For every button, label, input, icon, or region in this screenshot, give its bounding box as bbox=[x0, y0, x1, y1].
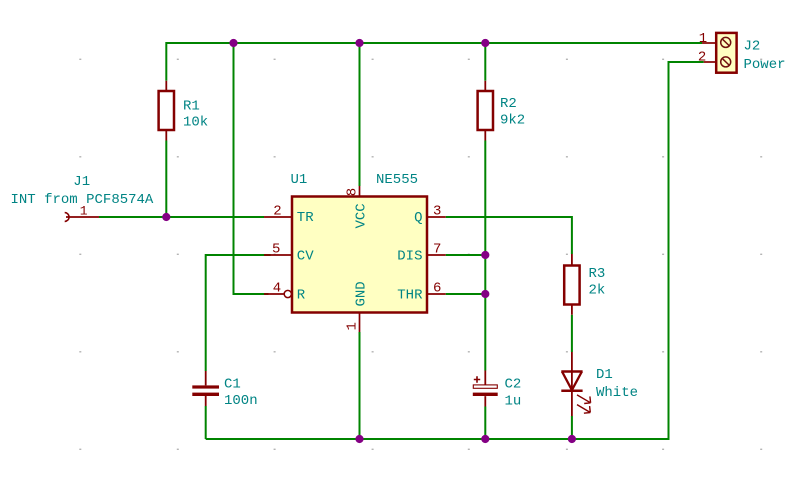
screw terminal 1 bbox=[721, 37, 731, 47]
svg-text:C2: C2 bbox=[505, 377, 522, 393]
pin 2 of J2 bbox=[704, 61, 717, 63]
resistor R2 bbox=[478, 81, 526, 141]
svg-text:White: White bbox=[596, 385, 638, 401]
svg-text:R1: R1 bbox=[183, 99, 200, 115]
junction TR node bbox=[162, 213, 170, 221]
pin 5 CV bbox=[264, 242, 314, 265]
wire J1 to TR bbox=[99, 216, 264, 218]
pin 1 GND bbox=[345, 281, 370, 332]
wire THR stub bbox=[446, 293, 486, 295]
pin 4 R (inverted) bbox=[264, 281, 306, 304]
LED D1 bbox=[561, 352, 590, 416]
svg-text:8: 8 bbox=[345, 188, 361, 196]
wire right return to J2 pin2 bbox=[669, 62, 704, 440]
wire top power rail bbox=[99, 42, 704, 440]
svg-text:INT from PCF8574A: INT from PCF8574A bbox=[11, 192, 154, 208]
connector J1 bbox=[11, 174, 154, 221]
svg-text:4: 4 bbox=[273, 281, 281, 297]
junction THR node bbox=[481, 290, 489, 298]
wire C1 bottom bbox=[205, 406, 207, 439]
junction D1 bottom bbox=[568, 435, 576, 443]
junction top rail / R2 bbox=[481, 39, 489, 47]
wire R1 bottom to TR node bbox=[165, 141, 167, 218]
wire R2 bottom through DIS THR to C2 bbox=[484, 141, 486, 371]
svg-text:R: R bbox=[297, 288, 306, 304]
svg-text:10k: 10k bbox=[183, 115, 208, 131]
svg-text:9k2: 9k2 bbox=[500, 113, 525, 129]
svg-text:R3: R3 bbox=[589, 266, 606, 282]
svg-text:6: 6 bbox=[433, 281, 441, 297]
pin 8 VCC bbox=[345, 186, 370, 229]
op-amp / timer U1 NE555 bbox=[291, 172, 428, 313]
svg-text:CV: CV bbox=[297, 249, 314, 265]
screw terminal 2 bbox=[721, 57, 731, 67]
svg-text:Power: Power bbox=[744, 57, 786, 73]
junction C2 bottom bbox=[481, 435, 489, 443]
svg-text:2k: 2k bbox=[589, 283, 606, 299]
grid dots bbox=[79, 59, 762, 450]
svg-text:VCC: VCC bbox=[354, 203, 370, 228]
svg-text:1: 1 bbox=[345, 322, 361, 330]
wire GND vertical bbox=[359, 332, 361, 439]
svg-text:2: 2 bbox=[273, 204, 281, 220]
wire DIS stub bbox=[446, 254, 486, 256]
wire Q to R3 bbox=[446, 217, 572, 254]
wire CV to C1 bbox=[206, 255, 271, 371]
resistor R3 bbox=[564, 254, 605, 315]
svg-text:U1: U1 bbox=[291, 172, 308, 188]
svg-text:7: 7 bbox=[433, 242, 441, 258]
svg-text:2: 2 bbox=[698, 50, 706, 66]
svg-text:1u: 1u bbox=[505, 394, 522, 410]
svg-text:GND: GND bbox=[354, 281, 370, 306]
wire VCC vertical bbox=[359, 43, 361, 186]
svg-text:DIS: DIS bbox=[397, 249, 422, 265]
junction top rail / reset riser bbox=[229, 39, 237, 47]
pin 2 TR bbox=[264, 204, 314, 227]
wire C2 bottom bbox=[484, 407, 486, 440]
pin 6 THR bbox=[397, 281, 445, 304]
svg-text:J1: J1 bbox=[73, 174, 90, 190]
svg-text:TR: TR bbox=[297, 210, 314, 226]
svg-text:3: 3 bbox=[433, 204, 441, 220]
svg-text:J2: J2 bbox=[744, 39, 761, 55]
junction GND bottom bbox=[355, 435, 363, 443]
svg-text:C1: C1 bbox=[224, 377, 241, 393]
junction top rail / VCC bbox=[355, 39, 363, 47]
pin 7 DIS bbox=[397, 242, 445, 265]
svg-text:NE555: NE555 bbox=[376, 172, 418, 188]
capacitor C2 (polarized) bbox=[473, 371, 522, 410]
wire R3 to D1 bbox=[571, 315, 573, 352]
capacitor C1 bbox=[192, 371, 257, 409]
resistor R1 bbox=[159, 81, 209, 141]
svg-text:THR: THR bbox=[397, 288, 423, 304]
pin 3 Q bbox=[414, 204, 446, 227]
junction DIS node bbox=[481, 251, 489, 259]
svg-text:R2: R2 bbox=[500, 96, 517, 112]
svg-text:D1: D1 bbox=[596, 367, 613, 383]
wire D1 to bottom rail bbox=[571, 416, 573, 439]
svg-text:100n: 100n bbox=[224, 393, 258, 409]
wire bottom rail bbox=[206, 438, 669, 440]
wire R1 top bbox=[165, 42, 167, 81]
wire VCC-rail to reset pin bbox=[234, 43, 269, 294]
svg-text:Q: Q bbox=[414, 210, 422, 226]
svg-text:5: 5 bbox=[272, 242, 280, 258]
connector J2 bbox=[698, 31, 786, 73]
pin 1 of J2 bbox=[702, 42, 716, 44]
svg-text:1: 1 bbox=[699, 31, 707, 47]
wire R2 top bbox=[484, 42, 486, 81]
